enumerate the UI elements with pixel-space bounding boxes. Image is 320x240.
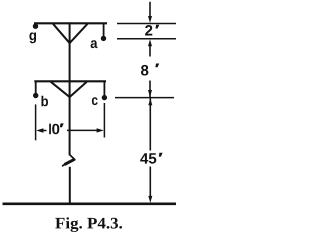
dimension shaft 45ft upper <box>149 98 151 151</box>
pole break bold stroke <box>64 159 74 164</box>
extension line c-level <box>115 97 174 99</box>
dimension text 2ft <box>145 25 159 36</box>
extension line g-level <box>117 23 176 25</box>
conductor stub a <box>103 24 105 37</box>
crossarm top <box>34 22 107 24</box>
pole upper section <box>69 22 71 155</box>
dimension arrow shaft 2ft lower <box>149 45 151 57</box>
pole lower section <box>69 167 71 204</box>
extension line a-level <box>117 38 176 40</box>
arrowhead 45ft bottom pointing down <box>148 196 152 203</box>
dimension arrow shaft 2ft upper <box>149 2 151 18</box>
dimension text 45ft <box>140 153 162 164</box>
dimension shaft 45ft lower <box>149 167 151 199</box>
arrowhead 2ft bottom pointing up <box>148 39 152 46</box>
extension line 10ft right <box>103 103 105 138</box>
label b <box>42 96 49 107</box>
arrowhead 10ft right pointing right <box>97 128 104 132</box>
conductor dot b <box>33 93 38 98</box>
conductor dot g <box>33 24 38 29</box>
label c <box>92 97 98 105</box>
conductor stub c <box>103 82 105 95</box>
crossarm middle <box>34 80 106 82</box>
conductor dot c <box>102 95 107 100</box>
arrowhead 10ft left pointing left <box>36 128 43 132</box>
arrowhead 8ft pointing down <box>148 90 152 97</box>
ground line <box>3 203 177 206</box>
label g <box>29 32 36 43</box>
brace V middle right arm <box>69 82 86 97</box>
dimension shaft 10ft left <box>40 130 47 132</box>
conductor dot a <box>101 36 106 41</box>
brace V middle left arm <box>51 82 70 97</box>
brace V top left arm <box>53 24 70 44</box>
dimension text 10ft <box>49 123 64 134</box>
dimension text 8ft <box>141 64 159 76</box>
arrowhead 45ft top pointing up <box>148 98 152 105</box>
label a <box>91 40 98 48</box>
dimension arrow shaft 8ft lower <box>149 81 151 98</box>
extension line 10ft left <box>35 104 37 140</box>
figure caption <box>55 217 122 232</box>
dimension shaft 10ft right <box>67 129 100 131</box>
pole break squiggle <box>62 155 75 167</box>
brace V top right arm <box>69 24 87 44</box>
conductor stub b <box>35 82 37 93</box>
arrowhead 2ft top pointing down <box>148 16 152 23</box>
